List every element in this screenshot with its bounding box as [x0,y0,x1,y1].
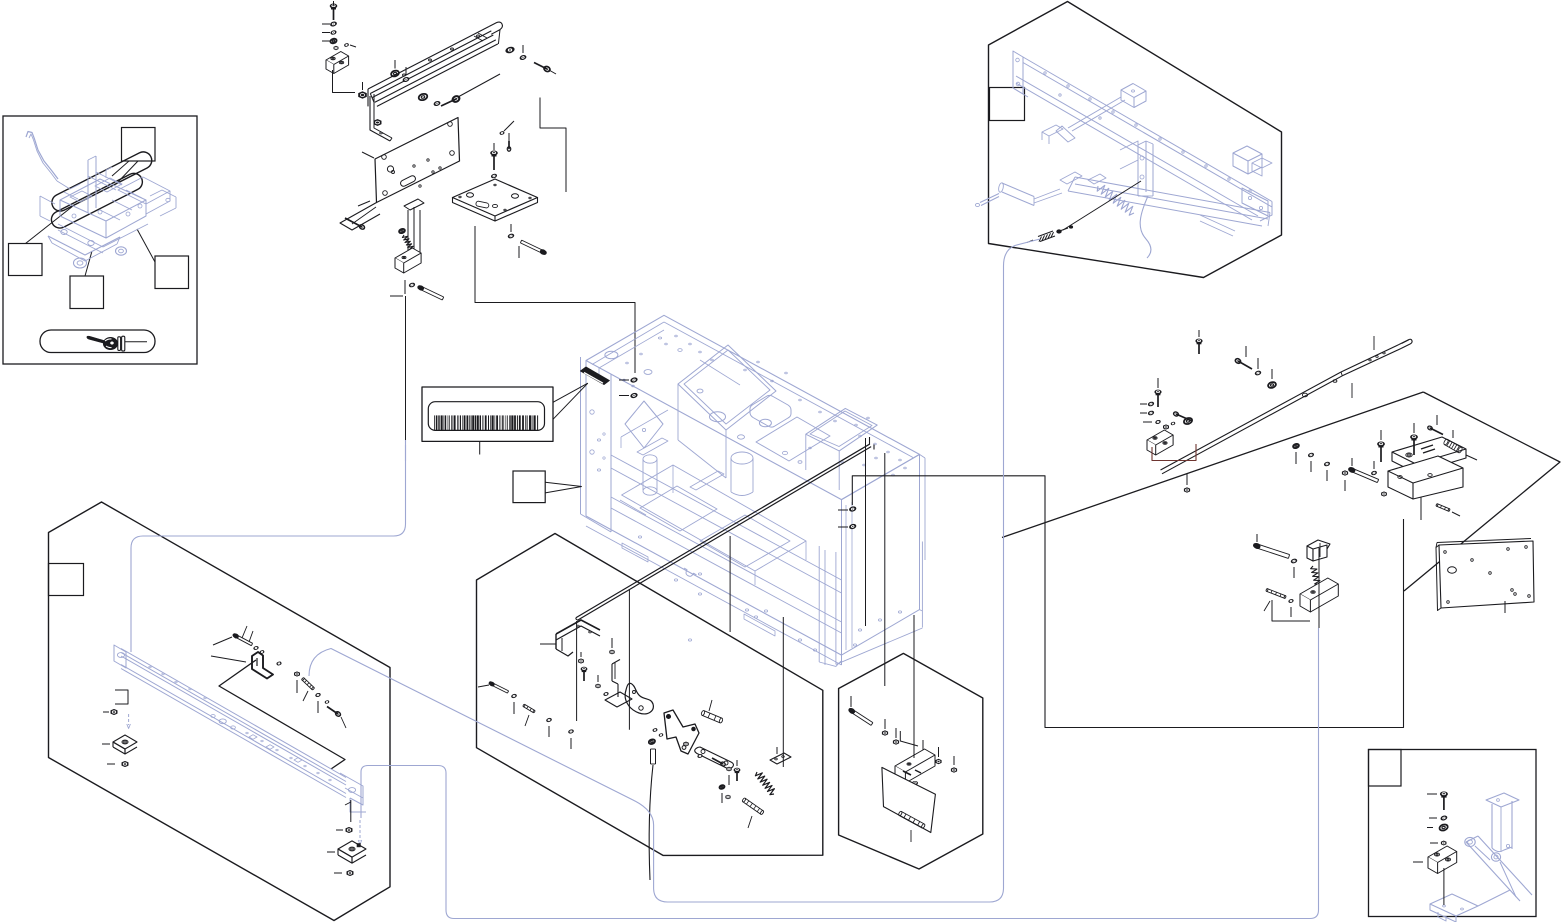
leader V3 [729,536,731,632]
screw T19 [507,133,511,152]
callout square K3 [70,276,104,309]
washer R2c [1140,411,1154,416]
leader in E2 [1063,181,1141,230]
wire Wa [361,628,1319,919]
leader V7 [865,438,867,626]
ring E4x [719,785,725,803]
barcode slot on chassis [581,367,610,385]
nut E3d [336,828,352,833]
enclosure E6 diag [1002,392,1423,538]
lead R4i [1421,455,1477,520]
bolt R4c [1427,415,1443,435]
washer T10 [403,67,410,82]
block E7e [1413,846,1457,874]
washer T14 [505,46,515,54]
barcode bars [434,415,538,430]
nut T7 [359,82,367,98]
plate E3b [102,735,137,754]
chassis wireframe (lavender) [581,315,926,666]
leader from bracket down [405,296,407,445]
washer R2d [1143,420,1161,424]
note pill [40,330,155,353]
nut E5c [893,728,898,744]
screw E4v [712,758,726,767]
washer T3 [322,30,336,35]
callout square K5 [990,88,1025,121]
step leader [115,690,128,704]
nut T8 [374,120,381,126]
wire W1 (black upper) [405,445,407,461]
nut E4e [610,638,614,654]
callout square K1 [122,128,156,162]
pin E4q [523,704,536,726]
L-bracket E3j [252,652,273,679]
block R2f [1147,430,1173,455]
bolt R4b [1411,423,1418,455]
plate P1 [358,118,460,207]
callout square K7 [49,564,84,596]
wire W2-W3 [309,239,1040,902]
washer E4p [511,694,516,714]
washer E3n [315,693,320,713]
wing bracket [340,203,380,231]
knurl R4d [1443,430,1463,453]
washer T12 [434,101,441,106]
ring R2g [1183,417,1193,425]
ring E7c [1427,823,1448,831]
callout square K6 [513,471,582,503]
arrow dash 2 [358,820,362,845]
enclosure E6 edges [1404,392,1560,591]
callout square K8 [1369,750,1402,787]
screw C2 [619,393,638,399]
inner frame E3 [219,660,345,769]
plate E4m [695,747,734,769]
pin R4h [1436,504,1460,516]
washer E3i [249,631,264,654]
plate P2 [453,179,538,221]
pin R5c [1264,588,1286,611]
leader V8 [1318,548,1320,628]
bolt E5h [912,781,917,800]
washer T2 [322,21,337,26]
bracket E5g [895,749,935,783]
bolt E3p [327,707,346,729]
cable end spring [1027,226,1073,243]
washer E4h [603,692,608,696]
leader V6 [884,453,886,686]
lever E4i [664,710,699,754]
bolt R1a [1196,330,1202,354]
barcode label frame [428,402,544,431]
cable E4l [648,739,655,880]
nut E7d [1430,841,1446,845]
block T6 [326,52,355,93]
washer E7b [1429,815,1447,820]
leader V2 [628,589,630,730]
rail (lavender, E3) [114,645,366,812]
leader L-shape top [540,98,566,193]
step R5e [1272,600,1310,621]
ring R1d [1267,369,1276,389]
nut E4b [579,652,584,663]
bolt T16 [534,63,556,75]
screw C1 [619,377,638,383]
washer T21 [508,224,514,239]
stem E7f [1443,868,1445,905]
bolt E4z [734,760,740,781]
washer E3k [277,662,282,666]
plate E5i [882,767,936,832]
long bar E6 [1161,336,1413,474]
ring T9 [390,60,399,77]
pin E5j [898,811,925,842]
bolt R4f [1348,458,1379,483]
bolt T1 [330,1,337,20]
pin E4pin [742,798,764,828]
nut R2i [1184,474,1189,492]
stem E3 [345,800,351,822]
wire W1 [131,440,406,652]
ring T4 [322,38,337,44]
leader V1 [576,621,578,721]
washer E4k [653,728,663,736]
enclosure E3 [49,502,391,921]
plate E4n [770,747,791,764]
nut E5d [920,740,925,756]
nut E3l [295,672,300,693]
washer R5d [1288,599,1293,617]
washer E3o [325,700,329,703]
washer E4u [697,754,702,758]
capsule B [48,170,145,231]
C-bracket E4f [625,683,653,714]
overview box E1 [3,116,197,364]
bracket R5 [1300,540,1338,612]
bolt R5a [1253,534,1290,558]
nut E5e [936,747,941,764]
bolt R1b [1234,346,1252,369]
bolt T13 [441,74,500,106]
bolt E5a [848,696,873,725]
nut E4y [726,795,730,798]
washer R2b [1140,402,1154,407]
rail assembly lavender (E2) [976,51,1273,258]
nut E4t [684,742,689,746]
barcode tail [553,383,588,419]
bolt T17 [345,218,366,230]
ring R3a [1293,443,1300,464]
washer R4e [1371,461,1377,475]
nut E5b [882,719,887,735]
bolt T22 [519,240,547,258]
ring T11 [418,93,428,101]
barcode box [422,387,553,441]
bolt R4a [1378,430,1385,462]
screw C3 [838,506,856,512]
bolt E4c [581,667,587,681]
long rod [576,437,874,620]
bolt R2h [1173,411,1192,421]
washer E3h [242,626,259,650]
enclosure E7 [1369,750,1537,917]
nut E3c [107,762,128,767]
plate E3e [327,841,366,863]
bolt R2a [1155,378,1161,407]
nut R3d [1342,471,1347,491]
washer R3b [1308,453,1314,472]
leader right-angle R [852,476,1403,728]
enclosure E4 [477,534,823,856]
washer T15 [520,45,527,60]
callout square K4 [155,256,189,289]
nut R2e [1164,422,1176,429]
nut E4g [596,675,600,688]
rail assembly [368,22,502,106]
washer R5b [1291,558,1297,578]
bracket under rail [370,94,392,141]
callout square K2 [9,244,43,276]
spring E4sp [755,772,774,795]
leader K1b [117,161,138,183]
red wire [1152,444,1196,461]
bracket E4a [540,620,600,656]
leader V5 [913,615,915,758]
bolt E3g [211,633,253,662]
bolt E7a [1427,792,1448,810]
arrow dash 1 [127,714,131,729]
nut E3f [334,871,353,876]
washer E4r [546,718,551,737]
nut T5 [334,43,356,49]
pin E3m [301,677,314,701]
leader K1 [112,161,129,176]
plate P3 [1436,539,1534,614]
enclosure E2 [989,2,1282,278]
screw T20 [500,121,514,135]
leader V4 [782,617,784,767]
Z-bracket E4d [605,660,632,708]
washer R1c [1255,358,1261,376]
machine sketch (lavender) [26,132,176,269]
block assembly R4 [1388,437,1466,499]
leader K3 [85,251,92,276]
leader K4 [137,229,155,262]
washer E4s [568,729,573,749]
bracket arm (lavender, E7) [1430,793,1532,922]
nut E5f [951,756,956,772]
pointing hand icon [87,336,147,351]
leader to chassis screws [475,226,635,373]
enclosure E5 [839,653,983,869]
bolt E4o [478,681,509,693]
nut E3a [103,710,117,715]
washer R3c [1324,462,1330,481]
nut E4w [727,767,731,785]
bolt T18 [491,143,498,178]
cylinder E4j [701,700,724,723]
capsule A [49,149,155,214]
bracket B1 [390,199,444,300]
step E5 [900,731,918,746]
screw C4 [838,524,856,530]
barcode stub [479,442,481,455]
nut R4g [1382,492,1387,496]
leader K2 [26,206,74,244]
